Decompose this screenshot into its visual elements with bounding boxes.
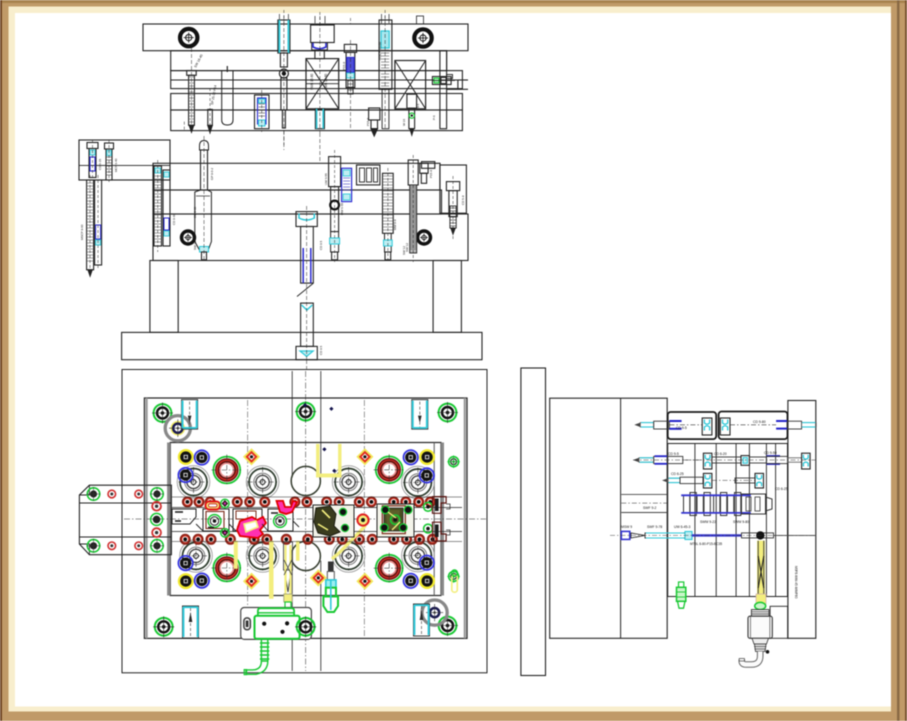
orange spring ring bottom-right xyxy=(374,553,405,584)
center lifter circle bottom xyxy=(291,541,320,570)
green pin above yellow slot right xyxy=(452,570,458,576)
right column step block xyxy=(770,606,788,638)
right end step xyxy=(458,79,468,81)
small pilot pin xyxy=(208,88,213,134)
svg-text:SWB 16-60: SWB 16-60 xyxy=(310,73,314,90)
svg-text:CD 6-25: CD 6-25 xyxy=(775,487,788,491)
red pilot pill xyxy=(206,502,221,510)
green cylinder part xyxy=(677,582,686,608)
svg-text:CD 9.5: CD 9.5 xyxy=(319,345,323,355)
svg-text:CD 9-50: CD 9-50 xyxy=(764,451,777,455)
component stubs above top plate xyxy=(279,10,423,24)
small screw lower mid xyxy=(366,108,380,136)
svg-text:MSW 9: MSW 9 xyxy=(621,525,632,529)
shoulder screw with blue body xyxy=(344,40,356,128)
svg-text:CD 5-9: CD 5-9 xyxy=(461,195,465,205)
stepped pin in right block xyxy=(402,94,420,135)
svg-text:MSCP 9-60: MSCP 9-60 xyxy=(80,224,84,240)
long knockout rod row 5 xyxy=(610,531,816,539)
ejector pin row 1 xyxy=(634,418,816,435)
feed bracket bolts xyxy=(87,487,165,553)
ejector pin row 3 xyxy=(662,473,764,488)
die body internal division xyxy=(620,398,622,638)
svg-text:UW 6-45-3: UW 6-45-3 xyxy=(674,525,691,529)
ring pin right xyxy=(418,231,431,244)
green ring pilots right xyxy=(424,502,433,511)
end clips right xyxy=(433,497,451,541)
die section 6 olive cluster xyxy=(377,504,414,537)
die holder plate xyxy=(153,214,468,261)
strip band baseline rails xyxy=(172,507,462,509)
guide bushings bottom row xyxy=(180,539,435,572)
clamp slot top-left xyxy=(182,400,198,430)
svg-text:CD 9-80: CD 9-80 xyxy=(753,420,766,424)
right view press column xyxy=(521,368,546,676)
orange spring ring top-left xyxy=(211,455,242,486)
middle view left feeder box xyxy=(79,140,170,180)
svg-text:P15-9: P15-9 xyxy=(342,62,346,70)
lifting ring bolt right xyxy=(414,29,431,46)
magenta part profile Y upper xyxy=(277,501,298,514)
svg-text:CD 9-5: CD 9-5 xyxy=(668,452,679,456)
svg-text:SWM 9-80: SWM 9-80 xyxy=(733,520,749,524)
plan view die set outer outline xyxy=(122,370,487,673)
orange spring ring top-right xyxy=(374,454,405,485)
gray locator ring top-left xyxy=(165,416,190,441)
sensor connector box xyxy=(241,608,312,640)
svg-text:GP 9-0-2: GP 9-0-2 xyxy=(210,168,214,180)
punch retainer bolts bottom row xyxy=(181,535,437,544)
svg-text:P15-9: P15-9 xyxy=(429,170,433,178)
punch retainer bolts top row xyxy=(183,498,435,507)
right view top pin housing B xyxy=(719,412,788,440)
left guide pillar bolts pair xyxy=(87,175,102,276)
die set bolt top-right xyxy=(437,402,458,423)
left inner bolts pair xyxy=(154,160,170,252)
side cam unit right edge xyxy=(432,75,455,85)
feeder box bolt 2 xyxy=(105,140,114,182)
sensor dowel mid-right vertical xyxy=(323,562,338,613)
proximity sensor plug xyxy=(748,602,772,653)
green diamond pilot lower xyxy=(221,529,229,537)
svg-text:SWM 9-22: SWM 9-22 xyxy=(700,520,716,524)
svg-text:SW 12: SW 12 xyxy=(193,241,197,250)
lower base plate xyxy=(122,332,482,359)
spring unit small xyxy=(255,90,270,132)
die section 5 dark cluster xyxy=(313,505,354,537)
svg-text:9-6: 9-6 xyxy=(416,103,420,108)
right outer screw xyxy=(446,176,459,240)
lower band accent circles xyxy=(178,556,460,590)
svg-text:MT6L 6-80-P15-BC35: MT6L 6-80-P15-BC35 xyxy=(690,542,722,546)
center lifter circle top xyxy=(291,466,320,495)
svg-text:MW 6-55: MW 6-55 xyxy=(340,203,344,216)
plan lifter channel lines xyxy=(291,371,293,477)
svg-text:CD 6-25: CD 6-25 xyxy=(671,472,684,476)
right support leg xyxy=(433,261,461,333)
svg-text:MSCP 16-60: MSCP 16-60 xyxy=(378,42,382,60)
yellow sensor shaft xyxy=(756,541,766,610)
right view die body block xyxy=(550,398,668,638)
inter-view centerline stubs xyxy=(284,131,320,369)
svg-text:W-16: W-16 xyxy=(402,119,406,126)
right view top pin housing A xyxy=(668,412,717,439)
die section 3 xyxy=(233,509,262,531)
right view right column xyxy=(788,401,816,639)
die set bolt top-left xyxy=(152,403,173,424)
clamp slot bottom-right xyxy=(414,604,430,636)
side spacer plate right xyxy=(440,51,447,129)
svg-text:CD 6-20: CD 6-20 xyxy=(714,452,727,456)
orange spring ring bottom-left xyxy=(211,553,242,584)
svg-text:UW 6-55: UW 6-55 xyxy=(324,173,328,185)
die set bolt bottom-left xyxy=(153,616,174,637)
die set bolt bottom-mid redraw over connector xyxy=(295,616,316,637)
clamp slot top-right xyxy=(412,400,428,430)
yellow diagonal strip path xyxy=(332,526,366,559)
lifting ring bolt left xyxy=(180,29,197,46)
right view plate stack verticals xyxy=(668,444,788,597)
center guide post xyxy=(195,136,212,262)
punch holder seam line xyxy=(171,79,463,81)
right side tab xyxy=(422,162,435,169)
lifter pin center vertical xyxy=(284,542,293,611)
mid small part xyxy=(420,163,428,183)
mid tall post xyxy=(383,168,394,262)
gray locator ring bottom-right xyxy=(422,600,447,625)
red yellow ring mid xyxy=(357,514,368,525)
die section 2 with green ring xyxy=(203,509,229,531)
plan view stripper plate region xyxy=(170,443,441,596)
yellow strips lower area xyxy=(234,541,457,599)
guide slot u-shape xyxy=(222,71,233,125)
die set bolt bottom-right xyxy=(437,615,458,636)
ejector pin row 2 xyxy=(633,453,816,469)
sensor cable xyxy=(244,639,269,675)
svg-text:CD 9-60: CD 9-60 xyxy=(193,206,197,218)
clamp slot bottom-left xyxy=(183,606,199,638)
stripper plate xyxy=(171,110,463,131)
sensor cable right view xyxy=(742,652,760,665)
center punch with blue cap xyxy=(311,16,335,133)
plan view centerlines xyxy=(305,371,307,671)
svg-text:CD 9-60: CD 9-60 xyxy=(172,213,176,225)
die section 1 xyxy=(172,509,196,524)
mid dark bolt xyxy=(408,155,418,262)
svg-text:SW 12: SW 12 xyxy=(402,246,406,255)
svg-text:MCP 6-40: MCP 6-40 xyxy=(114,158,118,172)
plan view lower die plate xyxy=(144,398,467,638)
punch holder plate xyxy=(171,71,463,89)
mid spring blue xyxy=(342,168,352,201)
svg-text:CD 6-15: CD 6-15 xyxy=(98,158,102,170)
guide post punch with cyan sleeves xyxy=(278,16,290,145)
hex bolt assembly far left xyxy=(184,48,196,133)
feeder box internal seam xyxy=(79,164,170,166)
lower die second plate xyxy=(153,190,442,214)
die set bolt bottom-mid xyxy=(295,616,316,637)
ribbed lifter assembly row 4 xyxy=(621,493,772,516)
stripper backing plate xyxy=(171,94,463,111)
upper backing plate xyxy=(171,51,447,71)
left feed bracket xyxy=(79,485,171,555)
top view upper die top plate xyxy=(143,24,468,51)
svg-text:P15-9: P15-9 xyxy=(366,118,370,126)
lower die top plate xyxy=(153,163,440,190)
die spring block X left xyxy=(306,59,339,109)
svg-text:M9F6-WW-45-WWF60: M9F6-WW-45-WWF60 xyxy=(794,566,798,599)
spring guide with cyan top xyxy=(379,16,392,129)
svg-text:SWF 9-78: SWF 9-78 xyxy=(647,525,662,529)
strip guide angled lines xyxy=(196,521,299,531)
svg-text:P-6: P-6 xyxy=(432,115,436,120)
upper band accent circles xyxy=(178,403,460,483)
yellow guide strips upper xyxy=(316,444,341,478)
green diamond pilot upper xyxy=(221,499,229,507)
right side block xyxy=(440,165,467,213)
die body band lines left of division xyxy=(550,443,621,445)
mid component lifter pin xyxy=(329,150,341,262)
feed bracket center column circles xyxy=(151,502,163,537)
magenta part profile boot xyxy=(237,517,266,538)
feeder box bolt 1 xyxy=(87,140,98,180)
left support leg xyxy=(150,261,178,333)
die section 4 with green ring xyxy=(268,509,293,531)
stripper plate thick edges xyxy=(167,443,170,596)
svg-text:SWB 16-60: SWB 16-60 xyxy=(324,73,328,90)
die spring block X right xyxy=(395,61,426,109)
die set bolt top-mid xyxy=(295,401,316,422)
center ejector rod xyxy=(296,206,317,362)
ring pin left xyxy=(182,231,195,244)
svg-text:MW 9-9: MW 9-9 xyxy=(393,219,397,230)
mid block with windows xyxy=(357,165,380,185)
svg-text:CD 9.5: CD 9.5 xyxy=(319,240,323,250)
svg-text:CD 9-5: CD 9-5 xyxy=(676,426,687,430)
guide bushings top row xyxy=(177,466,434,499)
svg-text:SWF 9-2: SWF 9-2 xyxy=(643,506,656,510)
